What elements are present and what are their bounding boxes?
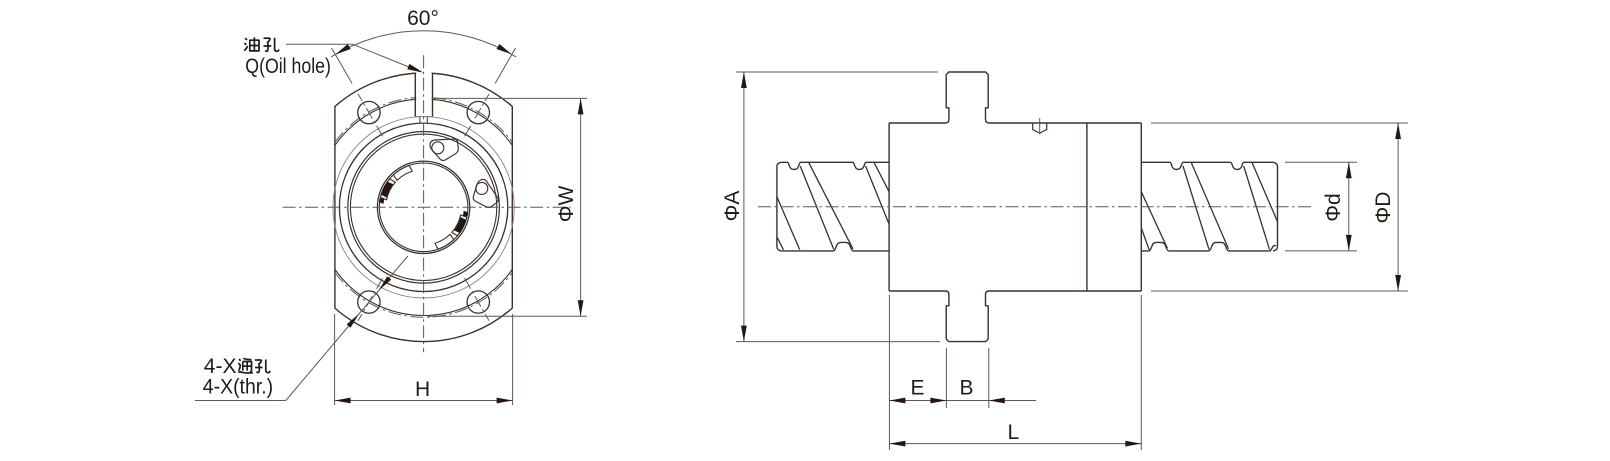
svg-text:4-X(thr.): 4-X(thr.) bbox=[203, 376, 273, 399]
svg-text:L: L bbox=[1008, 421, 1020, 444]
svg-text:Q(Oil hole): Q(Oil hole) bbox=[245, 55, 331, 78]
svg-text:H: H bbox=[415, 378, 430, 401]
svg-text:ΦD: ΦD bbox=[1372, 192, 1395, 224]
svg-text:ΦA: ΦA bbox=[721, 191, 744, 222]
svg-text:B: B bbox=[959, 377, 973, 400]
svg-text:Φd: Φd bbox=[1322, 193, 1345, 221]
svg-text:ΦW: ΦW bbox=[555, 186, 578, 223]
svg-text:E: E bbox=[910, 377, 924, 400]
svg-text:60°: 60° bbox=[407, 7, 439, 30]
